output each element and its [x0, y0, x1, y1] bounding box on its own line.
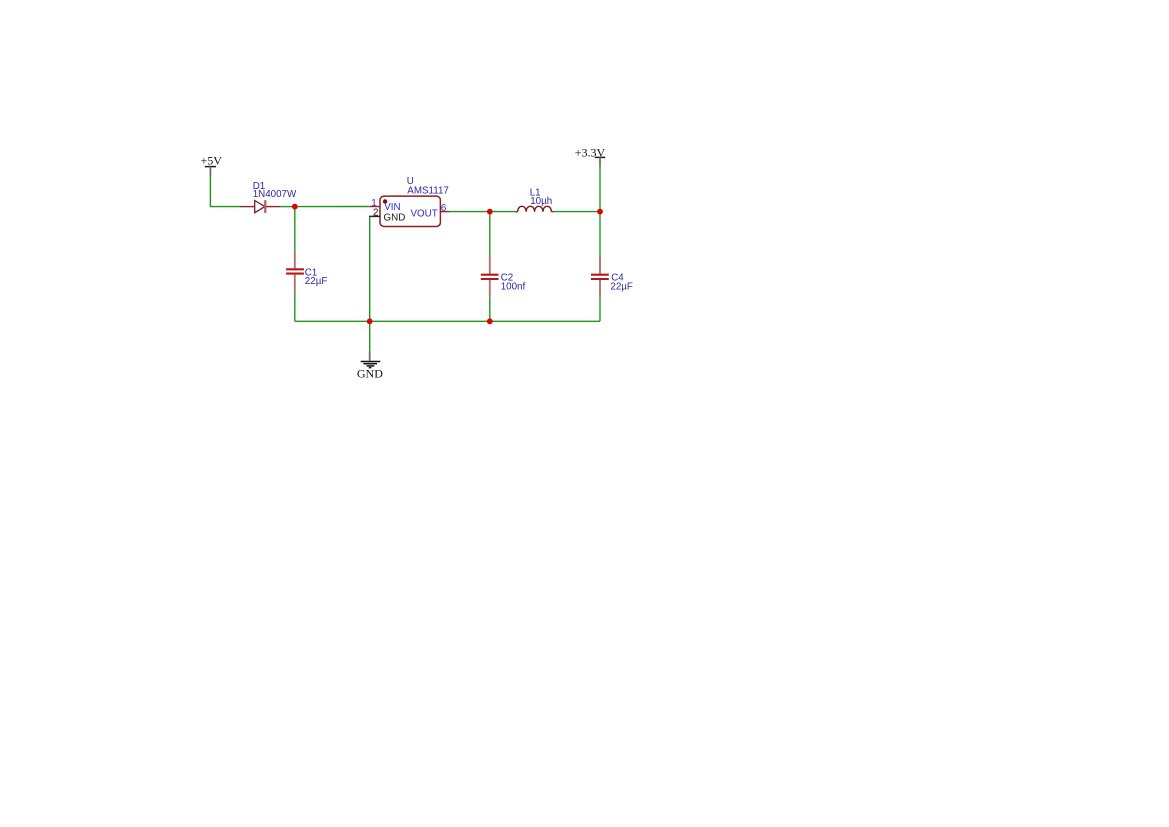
wire C4 down to rail corner — [599, 296, 601, 321]
pin 2 GND stub — [369, 207, 380, 218]
wire C1 down to rail — [294, 291, 296, 322]
pin 6 VOUT stub — [440, 203, 449, 214]
wire C2 down to rail — [489, 296, 491, 321]
svg-text:AMS1117: AMS1117 — [407, 185, 449, 196]
wire +5V stem — [210, 176, 240, 207]
junction rail at GND — [367, 318, 373, 324]
wire node A down to C1 — [294, 207, 296, 252]
wire +3.3V stem down to node C — [599, 166, 601, 212]
wire bottom rail — [295, 320, 600, 322]
svg-text:22µF: 22µF — [610, 281, 633, 292]
capacitor C4 — [591, 257, 633, 297]
svg-text:VOUT: VOUT — [411, 208, 438, 219]
op-amp U1 AMS1117 body — [380, 176, 449, 227]
svg-text:22µF: 22µF — [305, 276, 328, 287]
wire pin 2 down to rail — [369, 217, 371, 321]
wire rail down to ground — [369, 321, 371, 351]
wire node A to pin 1 — [295, 206, 370, 208]
power flag +3.3V — [575, 146, 606, 167]
wire node C down to C4 — [599, 212, 601, 257]
capacitor C2 — [481, 257, 526, 297]
junction node A — [292, 204, 298, 210]
svg-text:GND: GND — [384, 213, 406, 224]
svg-text:GND: GND — [357, 366, 383, 380]
junction rail at C2 — [487, 318, 493, 324]
diode D1 — [240, 181, 297, 213]
svg-text:VIN: VIN — [384, 202, 400, 213]
wire node B to inductor — [490, 211, 515, 213]
wire inductor to node C — [554, 211, 600, 213]
svg-text:100nf: 100nf — [501, 281, 526, 292]
junction node B — [487, 209, 493, 215]
capacitor C1 — [286, 252, 327, 291]
svg-text:+5V: +5V — [201, 153, 223, 167]
junction node C — [597, 209, 603, 215]
wire diode to node A — [280, 206, 295, 208]
svg-text:10µh: 10µh — [530, 196, 552, 207]
pin 1 VIN stub — [370, 198, 380, 209]
svg-text:6: 6 — [441, 203, 447, 214]
svg-text:1N4007W: 1N4007W — [253, 189, 297, 200]
wire pin 6 to node B — [450, 211, 490, 213]
ground — [357, 351, 383, 380]
wire node B down to C2 — [489, 212, 491, 257]
power flag +5V — [201, 153, 223, 176]
inductor L1 — [515, 188, 553, 212]
